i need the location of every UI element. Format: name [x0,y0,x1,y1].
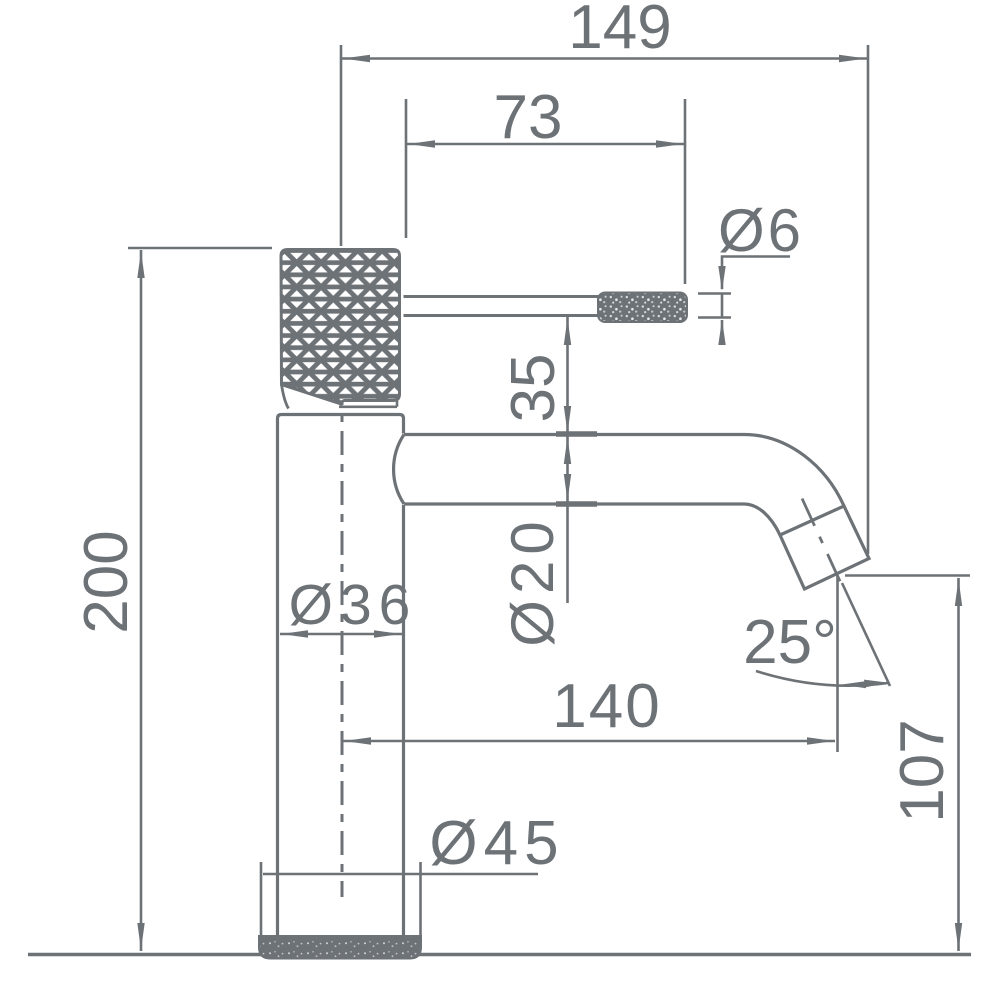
svg-text:73: 73 [494,83,563,152]
dimension D6: leader [722,257,790,290]
svg-text:25°: 25° [743,608,837,677]
angle 25: arrows [841,681,866,688]
lever rod [404,295,601,298]
baseline (counter surface) [28,953,971,957]
svg-text:107: 107 [888,719,957,822]
dimension 149: arrows [343,55,370,62]
svg-text:140: 140 [552,672,661,741]
handle knurled head [281,250,400,405]
dimension 73: arrows [408,140,435,147]
svg-text:149: 149 [568,0,671,62]
dimension 35 / D20 shared line [566,317,569,604]
dimension D45: extension lines [260,862,263,941]
angle 25: arc [756,671,888,686]
dimension 149: extension lines [340,45,343,246]
body cylinder outline [278,415,404,940]
lever knurled grip [598,293,687,323]
dimension 73: line [406,143,685,146]
svg-text:Ø36: Ø36 [289,573,418,637]
spout root bulge arc on body [394,435,404,505]
angle 25: slanted reference line [842,583,890,686]
dimension D20: arrows [564,437,571,464]
handle neck line [339,401,397,407]
svg-text:Ø6: Ø6 [718,197,804,264]
dimension 107: top tick [845,574,970,577]
dimension D36: line [280,633,402,636]
dimension 107: line [957,578,960,951]
dimension 140: line [343,740,835,743]
svg-text:Ø45: Ø45 [429,809,564,878]
spout tip axis (dash-dot) [800,494,844,590]
dimension D45: line [263,873,538,876]
dimension 200: top tick [128,247,272,250]
svg-text:Ø20: Ø20 [499,515,566,646]
dimension 73: extension lines [405,99,408,238]
dimension 149: line [341,57,868,60]
dimension 200: line [140,250,143,951]
handle skirt curve [282,385,289,409]
spout tube [404,435,844,507]
svg-text:35: 35 [499,354,568,423]
dimension 140: extension line [836,576,839,752]
body center axis (dash-dot) [341,381,344,897]
spout end cap [780,506,869,589]
dimension 35: arrows [564,318,571,345]
dimension D20: bold ticks [556,431,597,437]
base gasket [259,936,421,959]
svg-text:200: 200 [72,530,141,633]
